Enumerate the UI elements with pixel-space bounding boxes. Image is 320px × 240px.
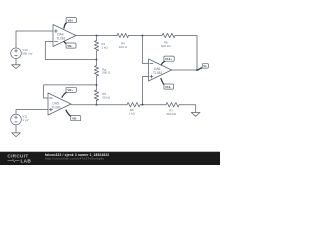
svg-text:500 mV: 500 mV [22,51,32,55]
svg-text:1 kΩ: 1 kΩ [129,111,136,115]
wire R4 to R6 [129,35,163,37]
svg-text:LAB: LAB [21,158,32,163]
svg-text:500 kΩ: 500 kΩ [161,44,171,48]
node B junction (Rg/R5, OA5 feedback) [96,84,98,86]
label OA4 TL081 [56,33,66,41]
label OA6 TL081 [153,67,163,75]
wire R8 to R7 [140,104,166,106]
resistor R1 (vertical) [94,41,98,52]
svg-text:VB-: VB- [67,44,72,48]
label R8 1k [129,108,136,115]
resistor R4 [117,33,129,37]
svg-text:VB+: VB+ [67,88,73,92]
label R6 500k [161,40,171,47]
op-amp OA6 TL081 [149,59,172,81]
voltage source V11 [11,114,22,125]
svg-text:V13-: V13- [165,85,171,89]
wire OA5 feedback (-in to node B) [44,85,97,98]
node Vout junction [196,69,198,71]
label Rg 500ohm [102,67,111,74]
wire V11 to OA5 +in [16,110,48,115]
svg-text:TL081: TL081 [56,37,66,41]
svg-text:Vo: Vo [203,64,207,68]
resistor R7 [166,103,179,107]
wire OA4 feedback (-in to node A) [45,42,96,60]
footer watermark bar [0,152,220,165]
label V11 1uV [22,114,28,121]
resistor R5 (vertical) [94,90,98,101]
wire OA5 output to R8 [71,104,127,106]
svg-text:500 Ω: 500 Ω [102,71,111,75]
wire junction to OA6 -in [143,36,149,64]
ground G2 (below V11) [12,125,21,137]
flag V13+ (OA6 V+ pin) [162,56,175,64]
svg-text:VB+: VB+ [68,19,74,23]
gain chain top wire segment [96,36,98,41]
flag VB+ (OA5 V+ pin) [62,87,76,97]
CircuitLab logo [7,153,31,163]
wire R1 to node A [96,51,98,66]
svg-text:TL081: TL081 [153,71,163,75]
wire junction to OA6 +in [143,77,149,105]
node A junction (R1/Rg, OA4 feedback) [96,59,98,61]
resistor R6 [162,33,175,37]
wire R5 to bottom rail [96,100,98,105]
flag VB- (OA4 V- pin) [64,41,76,48]
wire R7 to ground [180,105,196,113]
svg-text:500 kΩ: 500 kΩ [166,112,176,116]
ground G1 (below V10) [12,59,21,69]
label R7 500k [166,109,176,116]
wire R6 to output node (feedback) [175,36,197,71]
wire OA4 output to R4 [76,35,117,37]
wire OA6 output [172,69,198,71]
label R1 1k [101,42,108,49]
flag VB- (OA5 V- pin) [66,110,81,121]
resistor Rg (vertical) [94,66,98,77]
resistor R8 [127,103,140,107]
label V10 500mV [22,48,32,55]
svg-text:http://circuitlab.com/c47e37n0: http://circuitlab.com/c47e37n0urbg8u [45,157,104,161]
op-amp OA4 TL081 [53,25,76,47]
svg-text:1 μV: 1 μV [22,118,28,122]
label R5 50k [102,92,111,99]
svg-text:TL081: TL081 [52,105,62,109]
svg-text:VB-: VB- [72,117,77,121]
svg-text:50 kΩ: 50 kΩ [102,95,111,99]
op-amp OA5 TL081 [48,93,71,115]
label OA5 TL081 [52,101,62,109]
svg-text:1 kΩ: 1 kΩ [101,45,108,49]
wire Rg to node B [96,76,98,90]
node junction at top of gain chain [96,35,98,37]
flag V13- (OA6 V- pin) [161,79,174,90]
node junction to OA6 +in [142,104,144,106]
node junction on bottom rail [96,104,98,106]
flag VB+ (OA4 V+ pin) [64,18,77,29]
node junction to OA6 inverting input [142,35,144,37]
svg-text:V13+: V13+ [165,57,172,61]
flag Vo (output net) [198,64,209,70]
voltage source V10 [11,48,22,59]
ground G3 (right) [191,113,200,117]
svg-text:100 Ω: 100 Ω [119,45,128,49]
wire V10 to OA4 +in [16,31,53,48]
label R4 100ohm [119,42,128,49]
